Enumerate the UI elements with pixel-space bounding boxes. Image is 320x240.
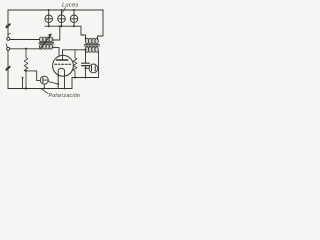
svg-text:Polarización: Polarización [49,93,81,99]
svg-text:Luces: Luces [62,2,78,8]
